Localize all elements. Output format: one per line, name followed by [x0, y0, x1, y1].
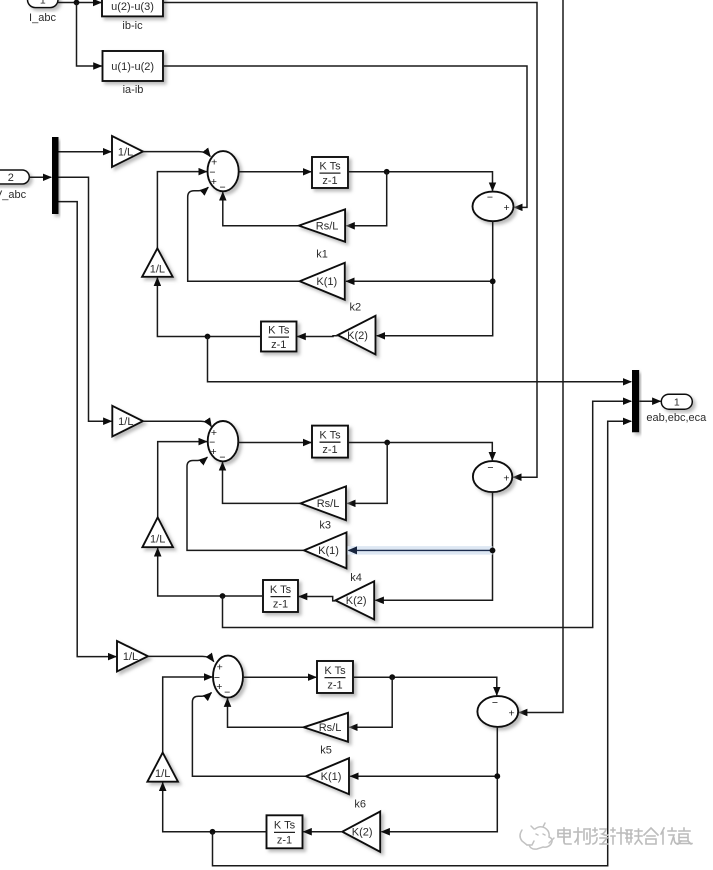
svg-text:Rs/L: Rs/L — [316, 220, 339, 232]
svg-text:K(1): K(1) — [321, 771, 342, 783]
svg-text:V_abc: V_abc — [0, 189, 27, 201]
svg-text:k6: k6 — [354, 798, 366, 810]
svg-text:−: − — [224, 687, 230, 699]
svg-text:K Ts: K Ts — [319, 429, 341, 441]
svg-text:u(1)-u(2): u(1)-u(2) — [111, 61, 154, 73]
svg-text:+: + — [509, 707, 515, 719]
svg-text:K Ts: K Ts — [270, 584, 292, 596]
svg-text:−: − — [487, 191, 493, 203]
svg-text:1: 1 — [674, 396, 680, 408]
svg-text:1: 1 — [40, 0, 46, 7]
svg-text:K(2): K(2) — [347, 330, 368, 342]
svg-text:k2: k2 — [349, 302, 361, 314]
svg-text:K(2): K(2) — [352, 827, 373, 839]
svg-text:K Ts: K Ts — [319, 160, 341, 172]
svg-text:k3: k3 — [319, 520, 331, 532]
svg-text:K Ts: K Ts — [324, 665, 346, 677]
svg-text:1/L: 1/L — [150, 534, 165, 546]
svg-text:K(1): K(1) — [318, 545, 339, 557]
svg-text:+: + — [211, 446, 217, 458]
svg-text:2: 2 — [8, 172, 14, 184]
svg-text:z-1: z-1 — [277, 834, 292, 846]
svg-text:eab,ebc,eca: eab,ebc,eca — [646, 412, 707, 424]
svg-text:1/L: 1/L — [150, 263, 165, 275]
svg-text:z-1: z-1 — [273, 599, 288, 611]
svg-text:+: + — [216, 681, 222, 693]
svg-text:1/L: 1/L — [118, 416, 133, 428]
svg-text:−: − — [219, 451, 225, 463]
svg-text:1/L: 1/L — [123, 651, 138, 663]
svg-text:ia-ib: ia-ib — [123, 84, 144, 96]
svg-text:I_abc: I_abc — [29, 12, 56, 24]
svg-text:+: + — [504, 202, 510, 214]
svg-text:Rs/L: Rs/L — [319, 722, 342, 734]
svg-text:K(2): K(2) — [346, 595, 367, 607]
svg-text:z-1: z-1 — [322, 444, 337, 456]
svg-text:k4: k4 — [350, 572, 362, 584]
svg-text:z-1: z-1 — [327, 680, 342, 692]
svg-text:+: + — [503, 472, 509, 484]
svg-text:1/L: 1/L — [118, 146, 133, 158]
svg-text:−: − — [220, 181, 226, 193]
svg-text:Rs/L: Rs/L — [317, 498, 340, 510]
svg-text:u(2)-u(3): u(2)-u(3) — [111, 1, 154, 13]
svg-text:1/L: 1/L — [155, 768, 170, 780]
svg-text:K(1): K(1) — [316, 276, 337, 288]
svg-text:k5: k5 — [320, 745, 332, 757]
svg-text:K Ts: K Ts — [274, 820, 296, 832]
svg-text:k1: k1 — [316, 249, 328, 261]
svg-text:K Ts: K Ts — [268, 324, 290, 336]
svg-text:z-1: z-1 — [271, 339, 286, 351]
svg-text:−: − — [492, 697, 498, 709]
svg-text:+: + — [211, 176, 217, 188]
svg-text:ib-ic: ib-ic — [122, 20, 143, 32]
svg-text:z-1: z-1 — [322, 175, 337, 187]
svg-text:−: − — [487, 462, 493, 474]
